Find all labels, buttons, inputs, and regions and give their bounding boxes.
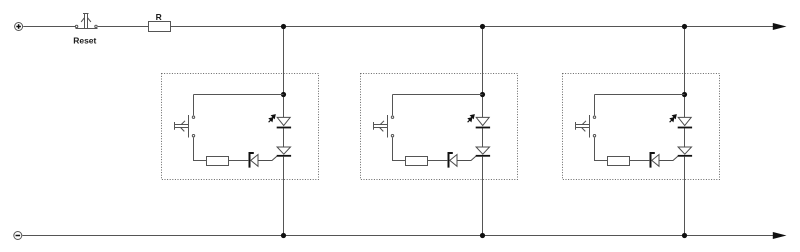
svg-text:Reset: Reset <box>73 36 96 46</box>
wire LED1 cathode to thyristor anode <box>283 128 285 147</box>
junction node top rail branch 3 <box>682 24 686 28</box>
LED D3 light arrows <box>670 115 677 122</box>
wire down to button 3 top contact <box>594 95 596 116</box>
resistor module 3 <box>608 157 630 166</box>
junction node branch 2 button wire <box>480 92 484 96</box>
resistor R <box>149 22 171 32</box>
wire resistor 2 to zener <box>428 160 448 162</box>
module 2 dotted boundary <box>361 74 518 180</box>
junction node branch 3 button wire <box>682 92 686 96</box>
svg-text:R: R <box>156 12 162 22</box>
arrowhead bottom rail <box>773 233 784 239</box>
LED D2 <box>476 117 490 127</box>
wire thyristor 2 cathode to bottom rail <box>482 157 484 236</box>
wire zener 1 to thyristor gate <box>258 156 277 160</box>
wire module 3 top horizontal <box>595 94 685 96</box>
LED D1 <box>277 117 291 127</box>
LED D1 light arrows <box>269 115 276 122</box>
thyristor Q1 <box>277 147 291 156</box>
LED D3 <box>678 117 692 127</box>
push button S1 (NO, bridge contact) <box>175 115 195 138</box>
wire vertical branch 1 anode side <box>283 27 285 118</box>
wire thyristor 1 cathode to bottom rail <box>283 157 285 236</box>
junction node bottom rail branch 2 <box>480 233 484 237</box>
wire top rail <box>171 26 775 28</box>
junction node top rail branch 1 <box>281 24 285 28</box>
wire zener 2 to thyristor gate <box>457 156 476 160</box>
wire vertical branch 2 anode side <box>482 27 484 118</box>
wire button 3 to resistor <box>595 138 608 161</box>
wire LED3 cathode to thyristor anode <box>684 128 686 147</box>
thyristor Q2 <box>476 147 490 156</box>
junction node branch 1 button wire <box>281 92 285 96</box>
module 1 dotted boundary <box>162 74 319 180</box>
wire bottom rail <box>22 235 774 237</box>
terminal + (positive supply) <box>15 23 23 31</box>
junction node top rail branch 2 <box>480 24 484 28</box>
terminal - (negative supply) <box>14 232 22 240</box>
zener diode ZD3 (cathode left) <box>651 153 660 168</box>
thyristor Q3 <box>678 147 692 156</box>
push button Reset (NO, bridge contact) <box>75 14 97 29</box>
wire vertical branch 3 anode side <box>684 27 686 118</box>
wire module 2 top horizontal <box>393 94 483 96</box>
zener diode ZD1 (cathode left) <box>250 153 259 168</box>
junction node bottom rail branch 1 <box>281 233 285 237</box>
resistor module 2 <box>406 157 428 166</box>
wire zener 3 to thyristor gate <box>659 156 678 160</box>
resistor module 1 <box>207 157 229 166</box>
zener diode ZD2 (cathode left) <box>449 153 458 168</box>
arrowhead top rail <box>773 24 784 30</box>
wire module 1 top horizontal <box>194 94 284 96</box>
junction node bottom rail branch 3 <box>682 233 686 237</box>
wire resistor 1 to zener <box>229 160 249 162</box>
wire down to button 1 top contact <box>193 95 195 116</box>
wire thyristor 3 cathode to bottom rail <box>684 157 686 236</box>
push button S3 (NO, bridge contact) <box>576 115 596 138</box>
wire + terminal to Reset <box>23 26 75 28</box>
wire button 1 to resistor <box>194 138 207 161</box>
module 3 dotted boundary <box>563 74 720 180</box>
wire button 2 to resistor <box>393 138 406 161</box>
LED D2 light arrows <box>468 115 475 122</box>
wire LED2 cathode to thyristor anode <box>482 128 484 147</box>
push button S2 (NO, bridge contact) <box>374 115 394 138</box>
wire resistor 3 to zener <box>630 160 650 162</box>
wire down to button 2 top contact <box>392 95 394 116</box>
wire Reset to resistor R <box>98 26 149 28</box>
